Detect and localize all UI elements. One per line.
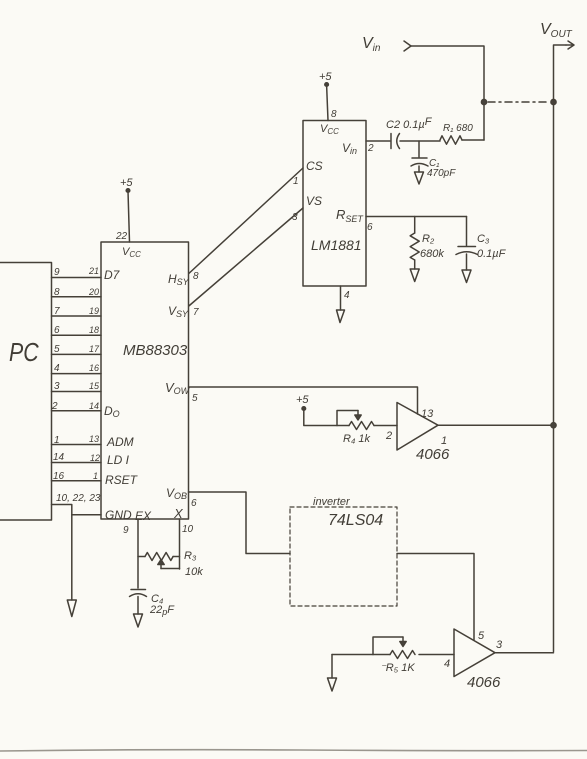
label Vin [362, 35, 381, 54]
resistor R3 trimmer [138, 556, 145, 558]
svg-text:0.1µF: 0.1µF [477, 248, 507, 260]
pin 2 label [367, 143, 374, 154]
pin 6 wire Rset [366, 216, 467, 218]
wire D6 row [52, 296, 102, 298]
svg-text:6: 6 [367, 222, 373, 233]
pin 1 wire (CS to HSy) [189, 168, 303, 274]
svg-text:22pF: 22pF [149, 604, 175, 617]
wire inverter output [397, 554, 474, 640]
ground (C1) [415, 172, 424, 184]
analog switch U3b 4066 [454, 629, 495, 677]
net 10,22,23 [56, 493, 101, 504]
svg-text:14: 14 [53, 452, 65, 463]
svg-text:5: 5 [54, 344, 60, 355]
svg-text:18: 18 [89, 325, 99, 335]
svg-text:1: 1 [293, 176, 299, 187]
svg-text:C₃: C₃ [477, 233, 490, 245]
svg-text:4066: 4066 [416, 446, 450, 463]
wire dashed link to Vout [488, 101, 549, 103]
pin VOB 6 wire [189, 492, 291, 554]
node Vin junction [481, 99, 486, 104]
svg-text:6: 6 [54, 325, 60, 336]
svg-text:DO: DO [104, 404, 120, 419]
svg-text:5: 5 [478, 630, 485, 642]
svg-text:D7: D7 [104, 268, 121, 282]
wire Vout [554, 45, 567, 652]
capacitor C3 [466, 217, 468, 246]
wire LD1 row [52, 462, 102, 464]
wire D5 row [52, 315, 102, 317]
wire R1 to corner [462, 139, 484, 141]
pin 3 wire (VS to VSy) [189, 208, 303, 306]
svg-text:16: 16 [53, 471, 65, 482]
wire gnd to chip [72, 514, 101, 516]
resistor R1 [440, 136, 462, 144]
svg-text:4: 4 [444, 658, 450, 670]
svg-text:9: 9 [123, 525, 129, 536]
svg-text:⁻R₅ 1K: ⁻R₅ 1K [380, 662, 415, 674]
ground (R5) [328, 678, 337, 691]
analog switch U3a 4066 [397, 403, 438, 451]
capacitor C4 [131, 589, 146, 591]
svg-text:3: 3 [292, 212, 298, 223]
svg-text:R₂: R₂ [422, 233, 435, 245]
ground (LM1881 pin4) [337, 310, 345, 323]
inverter 74LS04 box [290, 507, 397, 606]
svg-text:16: 16 [89, 363, 99, 373]
pin VSy 7 wire [168, 304, 199, 319]
PC box [0, 263, 52, 521]
svg-text:GND: GND [105, 508, 132, 522]
svg-text:10k: 10k [185, 566, 203, 578]
svg-text:R₄ 1k: R₄ 1k [343, 433, 371, 445]
svg-text:4066: 4066 [467, 674, 501, 691]
ground (R2) [410, 269, 419, 282]
svg-text:ADM: ADM [106, 435, 134, 449]
IC U1 MB88303 [101, 242, 189, 519]
scan paper edge [0, 750, 587, 751]
svg-text:3: 3 [496, 639, 503, 651]
svg-text:4: 4 [54, 363, 60, 374]
svg-text:CS: CS [306, 159, 323, 173]
svg-text:MB88303: MB88303 [123, 342, 188, 359]
wire D0 row [52, 410, 102, 412]
svg-text:inverter: inverter [313, 496, 351, 508]
svg-text:2: 2 [385, 430, 392, 442]
svg-text:RSET: RSET [105, 473, 139, 487]
wire D3 row [52, 353, 102, 355]
svg-text:Vin: Vin [342, 141, 357, 156]
+5 supply (R4) [296, 394, 309, 406]
svg-text:20: 20 [88, 287, 99, 297]
svg-text:9: 9 [54, 267, 60, 278]
wire D1 row [52, 391, 102, 393]
capacitor C2 [390, 134, 392, 149]
svg-text:Vin: Vin [362, 35, 381, 54]
svg-text:2: 2 [367, 143, 374, 154]
label Vout [540, 21, 573, 40]
svg-text:+5: +5 [319, 71, 332, 83]
wire D4 row [52, 334, 102, 336]
svg-text:74LS04: 74LS04 [328, 512, 383, 529]
svg-text:VOB: VOB [166, 486, 187, 501]
wire D7 row [52, 277, 102, 279]
svg-text:3: 3 [54, 381, 60, 392]
svg-text:VSY: VSY [168, 304, 189, 319]
svg-text:1: 1 [54, 435, 60, 446]
wire gnd bus [52, 505, 72, 601]
svg-text:X: X [173, 506, 184, 521]
svg-text:R₃: R₃ [184, 550, 197, 562]
svg-text:1: 1 [93, 471, 98, 481]
svg-text:VOW: VOW [165, 380, 191, 396]
capacitor C1 [418, 141, 420, 157]
pin HSy 8 wire [168, 271, 199, 287]
svg-text:12: 12 [90, 453, 100, 463]
svg-text:5: 5 [192, 393, 198, 404]
svg-text:LD I: LD I [107, 453, 130, 467]
svg-text:15: 15 [89, 381, 100, 391]
svg-text:RSET: RSET [336, 207, 364, 224]
wire pin2 to C2 [366, 140, 390, 142]
wire D2 row [52, 373, 102, 375]
svg-text:8: 8 [54, 287, 60, 298]
svg-text:R₁ 680: R₁ 680 [443, 123, 473, 134]
svg-text:22: 22 [115, 231, 128, 242]
svg-text:8: 8 [193, 271, 199, 282]
ground (C3) [462, 270, 471, 283]
pin 4 wire [340, 286, 342, 310]
svg-text:+5: +5 [120, 177, 133, 189]
svg-text:2: 2 [51, 401, 58, 412]
svg-text:470pF: 470pF [427, 168, 456, 179]
svg-text:7: 7 [54, 306, 60, 317]
node output junction [551, 423, 556, 428]
pin 10 X wire [179, 519, 181, 569]
svg-text:13: 13 [421, 408, 434, 420]
pin 9 EX wire [137, 519, 139, 588]
svg-text:19: 19 [89, 306, 99, 316]
wire Vin input [404, 41, 411, 51]
svg-text:C2 0.1µF: C2 0.1µF [386, 116, 433, 131]
svg-text:7: 7 [193, 307, 199, 318]
IC U2 LM1881 [303, 121, 366, 287]
wire ADM row [52, 444, 102, 446]
svg-text:VS: VS [306, 194, 322, 208]
pin 8 +5 supply [319, 71, 332, 83]
svg-text:10: 10 [182, 524, 194, 535]
wire C2 to R1 [400, 140, 440, 142]
svg-text:HSY: HSY [168, 272, 190, 287]
svg-text:4: 4 [344, 290, 350, 301]
svg-text:680k: 680k [420, 248, 444, 260]
svg-text:VCC: VCC [320, 123, 339, 136]
svg-text:PC: PC [9, 338, 39, 368]
ground (C4) [134, 614, 143, 627]
wire to ground [331, 655, 333, 679]
svg-text:+5: +5 [296, 394, 309, 406]
pin 22 +5 supply [120, 177, 133, 189]
svg-text:VOUT: VOUT [540, 21, 573, 40]
pin Vow 5 wire [189, 387, 418, 414]
svg-text:14: 14 [89, 401, 99, 411]
svg-text:VCC: VCC [122, 246, 141, 259]
wire RSET row [52, 480, 102, 482]
svg-text:LM1881: LM1881 [311, 237, 362, 253]
svg-text:17: 17 [89, 344, 100, 354]
resistor R4 trimmer [349, 422, 374, 430]
svg-text:10, 22, 23: 10, 22, 23 [56, 493, 101, 504]
ground (PC gnd) [67, 600, 76, 617]
svg-text:21: 21 [88, 266, 99, 276]
resistor R2 [414, 217, 416, 234]
resistor R5 trimmer [332, 654, 390, 656]
node Vout junction [551, 99, 556, 104]
svg-text:6: 6 [191, 498, 197, 509]
svg-text:8: 8 [331, 109, 337, 120]
svg-text:13: 13 [89, 434, 99, 444]
